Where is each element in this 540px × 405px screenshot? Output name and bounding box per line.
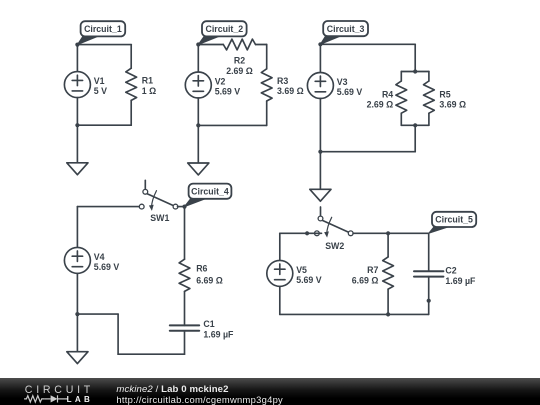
- svg-text:5 V: 5 V: [94, 86, 107, 96]
- svg-text:5.69 V: 5.69 V: [215, 87, 241, 97]
- node before SW2: [305, 231, 309, 235]
- wire V4 bottom lead: [76, 273, 78, 314]
- svg-text:SW2: SW2: [325, 241, 344, 251]
- svg-text:R3: R3: [277, 76, 288, 86]
- svg-text:V5: V5: [296, 265, 307, 275]
- svg-text:2.69 Ω: 2.69 Ω: [367, 100, 394, 110]
- resistor R3 zigzag: [261, 69, 272, 101]
- svg-text:V3: V3: [337, 77, 348, 87]
- wire C2 top lead: [428, 233, 430, 271]
- wire circuit3 top: [320, 43, 415, 45]
- wire circuit4 top-left to SW1: [77, 206, 139, 208]
- svg-text:2.69 Ω: 2.69 Ω: [226, 66, 253, 76]
- svg-text:R7: R7: [367, 265, 378, 275]
- wire parallel top bar: [401, 71, 429, 73]
- svg-text:5.69 V: 5.69 V: [94, 262, 120, 272]
- svg-text:V4: V4: [94, 252, 105, 262]
- wire V1 top lead: [76, 45, 78, 72]
- switch SW2: [312, 207, 353, 238]
- resistor R5 zigzag: [424, 81, 435, 113]
- wire circuit1 top: [77, 44, 131, 46]
- resistor R1 zigzag: [126, 68, 137, 100]
- node circuit2 top-left: [196, 42, 200, 46]
- wire R4 top lead: [400, 72, 402, 82]
- Circuit_3 label tag: [320, 21, 368, 44]
- svg-text:6.69 Ω: 6.69 Ω: [196, 275, 223, 285]
- wire circuit2 bottom: [198, 124, 266, 126]
- wire V2 top lead: [197, 45, 199, 73]
- svg-text:R2: R2: [234, 56, 245, 66]
- node R4 R5 top: [413, 69, 417, 73]
- switch SW1: [139, 180, 178, 211]
- wire V5 bottom lead: [279, 286, 281, 314]
- wire circuit4 bottom: [118, 353, 184, 355]
- wire R6 top lead: [184, 207, 186, 260]
- svg-text:5.69 V: 5.69 V: [337, 87, 363, 97]
- ground circuit4: [67, 314, 88, 364]
- resistor R7 zigzag: [383, 257, 394, 289]
- wire R5 top lead: [428, 72, 430, 82]
- footer url: [116, 394, 283, 405]
- capacitor C1 plates: [170, 325, 199, 330]
- svg-text:6.69 Ω: 6.69 Ω: [352, 275, 379, 285]
- ground circuit3: [310, 152, 331, 202]
- wire R5 bottom lead: [428, 113, 430, 125]
- CircuitLab logo text LAB: [67, 395, 94, 404]
- wire parallel bottom bar: [401, 124, 429, 126]
- Circuit_1 label tag: [77, 21, 125, 44]
- logo resistor: [24, 395, 44, 401]
- svg-text:1.69 µF: 1.69 µF: [203, 330, 234, 340]
- Circuit_5 label tag: [429, 212, 477, 234]
- svg-text:Circuit_5: Circuit_5: [435, 215, 473, 225]
- node circuit1 bottom-left: [75, 123, 79, 127]
- wire circuit1 bottom: [77, 124, 131, 126]
- node R7 top: [386, 231, 390, 235]
- node circuit4 bottom-left: [75, 312, 79, 316]
- node circuit2 bottom-left: [196, 123, 200, 127]
- ground circuit1: [67, 125, 88, 175]
- svg-text:R1: R1: [142, 76, 153, 86]
- wire V4 top lead: [76, 207, 78, 248]
- voltage source V1 5 V: [64, 72, 107, 98]
- wire C2 bottom lead: [428, 277, 430, 315]
- wire circuit5 top-left: [280, 232, 312, 234]
- wire R1 bottom lead: [130, 101, 132, 126]
- CircuitLab logo text CIRCUIT: [25, 384, 94, 396]
- wire node to riser: [77, 313, 118, 315]
- svg-text:V2: V2: [215, 76, 226, 86]
- node circuit3 top-left: [318, 42, 322, 46]
- svg-text:5.69 V: 5.69 V: [296, 275, 322, 285]
- node circuit1 top-left: [75, 43, 79, 47]
- svg-text:SW1: SW1: [150, 213, 169, 223]
- wire R7 bottom lead: [387, 289, 389, 314]
- wire R3 bottom lead: [266, 101, 268, 125]
- wire V3 top lead: [319, 44, 321, 72]
- logo diode: [51, 395, 58, 402]
- svg-text:R4: R4: [382, 89, 393, 99]
- resistor R6 zigzag: [179, 259, 190, 291]
- wire V5 top lead: [279, 233, 281, 260]
- footer title: [116, 384, 228, 395]
- svg-text:Circuit_3: Circuit_3: [327, 24, 365, 34]
- voltage source V3 5.69 V: [307, 73, 362, 99]
- svg-text:V1: V1: [94, 76, 105, 86]
- wire V2 bottom lead: [197, 98, 199, 125]
- wire circuit5 bottom: [280, 313, 429, 315]
- Circuit_2 label tag: [198, 21, 246, 44]
- svg-text:Circuit_2: Circuit_2: [205, 24, 243, 34]
- node R7 bottom: [386, 312, 390, 316]
- wire circuit3 bottom: [320, 151, 415, 153]
- resistor R4 zigzag: [396, 81, 407, 113]
- voltage source V5 5.69 V: [267, 260, 322, 286]
- svg-text:R5: R5: [439, 89, 450, 99]
- wire R3 top lead: [266, 45, 268, 69]
- Circuit_4 label tag: [185, 184, 232, 207]
- svg-text:1.69 µF: 1.69 µF: [445, 276, 476, 286]
- wire C1 bottom lead: [184, 331, 186, 354]
- wire circuit2 top-left: [198, 44, 223, 46]
- svg-text:Circuit_1: Circuit_1: [84, 24, 122, 34]
- node C2 bottom stub: [427, 299, 431, 303]
- wire V1 bottom lead: [76, 98, 78, 126]
- voltage source V4 5.69 V: [64, 247, 119, 273]
- svg-text:C2: C2: [445, 266, 456, 276]
- node R4 R5 bottom: [413, 123, 417, 127]
- wire R4 bottom lead: [400, 113, 402, 125]
- wire R7 top lead: [387, 233, 389, 257]
- CircuitLab logo symbol line: [22, 394, 68, 404]
- wire R1 top lead: [130, 45, 132, 69]
- ground circuit2: [188, 125, 209, 174]
- svg-text:Circuit_4: Circuit_4: [191, 186, 229, 196]
- resistor R2 zigzag: [223, 39, 255, 50]
- svg-text:C1: C1: [203, 319, 214, 329]
- node circuit4 junction: [182, 205, 186, 209]
- capacitor C2 plates: [414, 271, 443, 276]
- node circuit3 bottom-left: [318, 150, 322, 154]
- wire to parallel block top: [414, 44, 416, 71]
- wire V3 bottom lead: [319, 99, 321, 152]
- wire parallel block to bottom: [414, 125, 416, 151]
- footer bar: [0, 378, 540, 405]
- wire circuit2 top-right: [256, 44, 267, 46]
- svg-text:R6: R6: [196, 263, 207, 273]
- wire SW2 to C2 branch: [353, 232, 429, 234]
- svg-text:3.69 Ω: 3.69 Ω: [277, 86, 304, 96]
- wire R6 to C1: [184, 292, 186, 326]
- wire circuit4 bottom-left riser: [117, 314, 119, 354]
- svg-text:3.69 Ω: 3.69 Ω: [439, 100, 466, 110]
- wire SW1 to junction: [178, 206, 185, 208]
- voltage source V2 5.69 V: [185, 72, 240, 98]
- svg-text:1 Ω: 1 Ω: [142, 86, 156, 96]
